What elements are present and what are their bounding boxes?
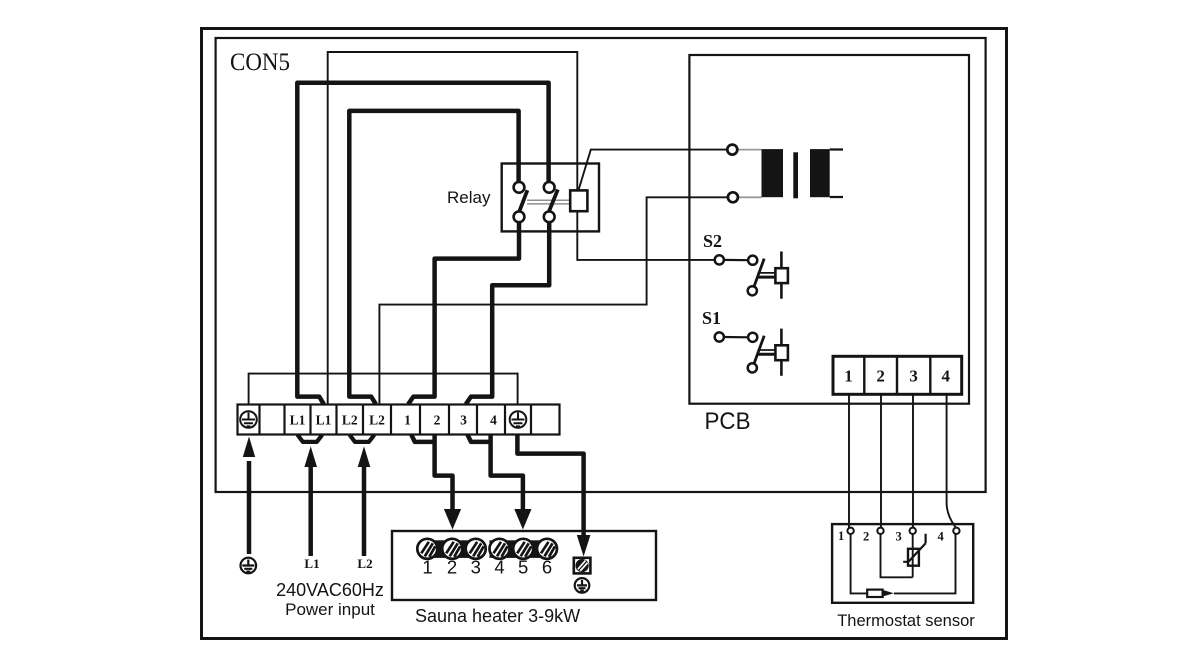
terminal strip labels bbox=[290, 413, 498, 428]
thermostat internal wiring bbox=[851, 534, 956, 593]
svg-text:4: 4 bbox=[490, 413, 497, 428]
svg-text:240VAC60Hz: 240VAC60Hz bbox=[276, 580, 384, 600]
wire PCB supply to S2 via relay coil bbox=[328, 52, 715, 405]
svg-text:1: 1 bbox=[404, 413, 411, 428]
thermostat terminal numbers bbox=[838, 529, 945, 544]
wire transformer top to relay coil bbox=[579, 150, 728, 190]
transformer T1 bbox=[727, 145, 843, 203]
heater terminal band 1 bbox=[421, 540, 483, 558]
outer border frame bbox=[202, 29, 1007, 639]
input PE ground symbol bbox=[241, 558, 257, 574]
svg-text:Sauna heater 3-9kW: Sauna heater 3-9kW bbox=[415, 606, 580, 626]
input L2 arrow bbox=[362, 465, 367, 556]
input L1 arrow bbox=[308, 465, 313, 556]
switch S1 bbox=[715, 329, 788, 376]
svg-text:Thermostat sensor: Thermostat sensor bbox=[837, 612, 975, 630]
capillary bulb bbox=[867, 590, 882, 597]
wire L2 to relay (thick loop) bbox=[349, 111, 518, 404]
PCB connector J1 bbox=[833, 356, 962, 394]
svg-text:3: 3 bbox=[471, 557, 481, 578]
relay contact circles bbox=[514, 182, 555, 222]
svg-text:5: 5 bbox=[518, 557, 528, 578]
svg-text:3: 3 bbox=[460, 413, 467, 428]
relay contact blades bbox=[519, 190, 558, 212]
thermostat sensor box bbox=[832, 524, 973, 603]
wire L1 to relay (thick loop) bbox=[297, 83, 548, 405]
arrowhead into heater terminal 2 bbox=[444, 509, 461, 530]
jumper loop under L2 terminals bbox=[350, 435, 375, 442]
svg-text:1: 1 bbox=[844, 367, 853, 386]
terminal strip X1 bbox=[238, 405, 560, 435]
svg-text:Relay: Relay bbox=[447, 188, 491, 207]
svg-text:4: 4 bbox=[494, 557, 504, 578]
earth terminal symbol right bbox=[510, 411, 527, 428]
svg-text:L2: L2 bbox=[342, 413, 358, 428]
svg-text:PCB: PCB bbox=[705, 408, 751, 435]
svg-text:2: 2 bbox=[876, 367, 885, 386]
svg-text:S2: S2 bbox=[703, 231, 722, 251]
heater terminals 1-6 bbox=[417, 539, 557, 559]
svg-text:CON5: CON5 bbox=[230, 47, 290, 76]
svg-text:6: 6 bbox=[542, 557, 552, 578]
svg-text:2: 2 bbox=[434, 413, 441, 428]
relay coil bbox=[570, 190, 587, 211]
input PE arrow bbox=[247, 461, 252, 554]
PCB connector numbers bbox=[844, 367, 950, 386]
heater earth symbol bbox=[575, 578, 590, 593]
enclosure box CON5 bbox=[216, 38, 986, 492]
heater terminal numbers bbox=[422, 557, 552, 578]
wire transformer bottom to terminal L2 bbox=[379, 197, 727, 404]
svg-text:3: 3 bbox=[896, 530, 902, 544]
svg-text:4: 4 bbox=[938, 530, 945, 544]
svg-text:L2: L2 bbox=[369, 413, 385, 428]
svg-text:L1: L1 bbox=[304, 556, 319, 571]
heater terminal band 2 bbox=[490, 540, 554, 558]
switch S2 bbox=[715, 252, 788, 299]
earth bus wire over terminals bbox=[249, 374, 518, 405]
heater PE terminal bbox=[574, 558, 591, 574]
wire earth terminal to heater PE bbox=[517, 435, 583, 538]
svg-text:L1: L1 bbox=[316, 413, 332, 428]
thermostat terminals bbox=[847, 528, 959, 534]
svg-text:3: 3 bbox=[909, 367, 918, 386]
svg-text:L1: L1 bbox=[290, 413, 306, 428]
svg-text:4: 4 bbox=[942, 367, 951, 386]
svg-text:1: 1 bbox=[422, 557, 432, 578]
svg-text:2: 2 bbox=[447, 557, 457, 578]
PCB box bbox=[689, 55, 969, 404]
jumper loop under L1 terminals bbox=[298, 435, 323, 442]
relay box bbox=[502, 164, 599, 232]
svg-text:1: 1 bbox=[838, 529, 844, 543]
arrowhead into heater terminal 5 bbox=[514, 509, 531, 530]
svg-text:2: 2 bbox=[863, 530, 869, 544]
svg-text:S1: S1 bbox=[702, 308, 721, 328]
wires PCB connector to thermostat bbox=[849, 394, 955, 528]
svg-text:L2: L2 bbox=[357, 556, 372, 571]
wire relay pole 1 to terminal 2 bbox=[408, 222, 519, 404]
sauna heater box bbox=[392, 531, 656, 600]
earth terminal symbol left bbox=[240, 411, 257, 428]
wire relay pole 2 to terminal 4 bbox=[466, 222, 549, 404]
arrowhead into heater PE bbox=[577, 535, 591, 557]
relay mechanical link bbox=[527, 200, 570, 204]
svg-text:Power input: Power input bbox=[285, 600, 375, 619]
thermistor RT bbox=[903, 534, 925, 566]
wire terminal 4 to heater terminal 5 bbox=[468, 435, 523, 513]
wire terminal 2 to heater terminal 2 bbox=[411, 435, 452, 513]
